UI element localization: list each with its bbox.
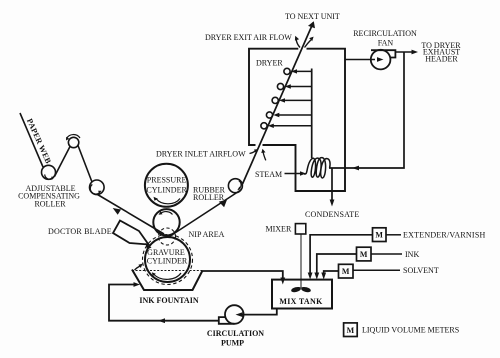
mix tank — [272, 280, 332, 309]
svg-text:FAN: FAN — [378, 38, 394, 47]
roller compensating top roller 2 — [68, 137, 78, 147]
svg-text:HEADER: HEADER — [425, 54, 458, 63]
nozzle circle 4 — [266, 112, 272, 118]
wire pump to fountain — [109, 285, 219, 321]
roller compensating idler 1 — [42, 165, 56, 179]
roller web turning roller — [228, 179, 242, 193]
nozzle arrow 4 — [276, 114, 311, 116]
cylinder pressure cylinder — [145, 164, 188, 207]
rotation arrow roller 2 — [67, 135, 81, 139]
nozzle circle 5 — [261, 123, 267, 129]
nozzle arrow 2 — [288, 86, 312, 88]
svg-text:ROLLER: ROLLER — [193, 193, 225, 202]
svg-text:DOCTOR BLADE: DOCTOR BLADE — [48, 227, 112, 236]
svg-text:STEAM: STEAM — [255, 170, 282, 179]
wire fan outlet — [395, 51, 413, 53]
meter box M2 — [357, 247, 372, 261]
wire fountain to tank — [203, 271, 283, 280]
arrow exit air left — [296, 40, 300, 48]
rotation arrow pressure cylinder — [156, 199, 180, 204]
svg-text:INK: INK — [405, 250, 419, 259]
nozzle circle 2 — [277, 83, 283, 89]
arrowhead return into coil — [352, 166, 359, 171]
svg-text:DRYER: DRYER — [256, 59, 283, 68]
svg-text:INK FOUNTAIN: INK FOUNTAIN — [139, 296, 198, 305]
svg-text:ROLLER: ROLLER — [34, 199, 66, 208]
ink fountain trapezoid — [132, 270, 203, 291]
arrowhead condensate — [330, 200, 335, 207]
svg-text:CYLINDER: CYLINDER — [147, 256, 188, 265]
nozzle arrow 5 — [271, 125, 312, 127]
svg-text:TO NEXT UNIT: TO NEXT UNIT — [285, 12, 340, 21]
wire dryer to fan — [345, 59, 375, 61]
nozzle arrow 3 — [282, 99, 312, 101]
wire web roller2 to roller3 — [78, 146, 92, 183]
arrowhead to exhaust header — [412, 50, 419, 55]
svg-text:M: M — [342, 267, 350, 276]
arrowhead to next unit — [308, 21, 315, 28]
ink surface dotted — [132, 270, 203, 272]
mixer propeller — [291, 287, 301, 293]
wire web roller1 to roller2 — [55, 147, 71, 177]
fan recirculation fan — [371, 50, 391, 70]
wire M2 to label — [371, 253, 402, 255]
rotation arrow rubber roller — [161, 212, 173, 215]
wire fan return line — [329, 52, 404, 168]
rotation arrow gravure cylinder — [154, 273, 181, 279]
arrowhead into fountain — [134, 282, 141, 287]
meter line extender/varnish — [310, 235, 372, 276]
cylinder gravure cylinder — [145, 237, 190, 282]
wire web to next unit diagonal — [243, 23, 314, 185]
svg-text:M: M — [360, 250, 368, 259]
arrow web out of fountain — [135, 266, 141, 270]
roller rubber roller — [153, 209, 179, 235]
rotation arrow turning roller — [239, 181, 241, 189]
svg-text:MIX TANK: MIX TANK — [279, 297, 323, 306]
arrowhead doctor blade tip — [146, 243, 152, 250]
nozzle circle 3 — [272, 97, 278, 103]
arrowhead into tank left — [280, 278, 285, 285]
svg-text:PUMP: PUMP — [221, 339, 244, 348]
mixer shaft — [300, 234, 302, 288]
rotation arrow roller 3 — [90, 184, 99, 194]
meter box M3 — [339, 264, 354, 278]
arrow steam inlet — [285, 173, 302, 175]
meter box M1 — [373, 228, 387, 242]
node nip dashed circle — [159, 228, 176, 245]
nozzle arrow 1 — [294, 70, 312, 72]
rotation arrow roller 1 — [45, 174, 53, 179]
arrowhead ink drop — [314, 273, 319, 280]
wire M3 to label — [353, 269, 400, 271]
wire web roller3 to nip — [98, 195, 165, 235]
svg-text:DRYER INLET AIRFLOW: DRYER INLET AIRFLOW — [156, 150, 246, 159]
wire M1 to label — [386, 234, 401, 236]
arrowhead web toward nip — [113, 208, 121, 215]
cylinder gravure cylinder dashed ring — [143, 235, 193, 285]
nozzle circle 1 — [284, 68, 290, 74]
arrow exit air right — [305, 40, 311, 48]
wire tank to pump — [240, 309, 277, 315]
wire condensate — [331, 168, 333, 202]
arrow inlet air up — [263, 153, 266, 161]
svg-text:M: M — [375, 231, 383, 240]
wire web nip to turning roller — [170, 191, 241, 237]
wire manifold — [311, 69, 313, 159]
svg-text:CONDENSATE: CONDENSATE — [305, 210, 359, 219]
arrowhead extender drop — [308, 273, 313, 280]
steam coil — [304, 158, 330, 178]
svg-text:PRESSURE: PRESSURE — [147, 176, 187, 185]
svg-text:EXTENDER/VARNISH: EXTENDER/VARNISH — [403, 231, 486, 240]
svg-text:MIXER: MIXER — [266, 225, 292, 234]
legend meter box — [344, 323, 358, 337]
svg-text:SOLVENT: SOLVENT — [403, 266, 439, 275]
arrowhead into pump — [236, 312, 243, 317]
svg-text:LIQUID VOLUME METERS: LIQUID VOLUME METERS — [362, 326, 459, 335]
svg-text:DRYER EXIT AIR FLOW: DRYER EXIT AIR FLOW — [205, 33, 292, 42]
svg-text:M: M — [347, 326, 355, 335]
arrowhead fan inlet — [377, 57, 384, 62]
meter line solvent — [324, 271, 339, 276]
svg-text:RECIRCULATION: RECIRCULATION — [353, 29, 417, 38]
pump circulation pump — [225, 305, 244, 324]
arrow inlet airflow pointer — [250, 151, 256, 154]
arrowhead solvent drop — [321, 273, 326, 280]
meter line ink — [317, 254, 357, 276]
mixer motor box — [295, 224, 305, 234]
svg-text:CIRCULATION: CIRCULATION — [207, 329, 264, 338]
dryer enclosure — [249, 49, 345, 191]
arrowhead web after nip — [219, 200, 227, 207]
wire paper web incoming segment — [20, 113, 43, 167]
arrowhead bottom line left — [158, 318, 165, 323]
svg-text:NIP AREA: NIP AREA — [189, 230, 225, 239]
svg-text:CYLINDER: CYLINDER — [146, 185, 187, 194]
roller compensating idler 3 — [90, 180, 105, 195]
doctor blade — [113, 221, 149, 245]
